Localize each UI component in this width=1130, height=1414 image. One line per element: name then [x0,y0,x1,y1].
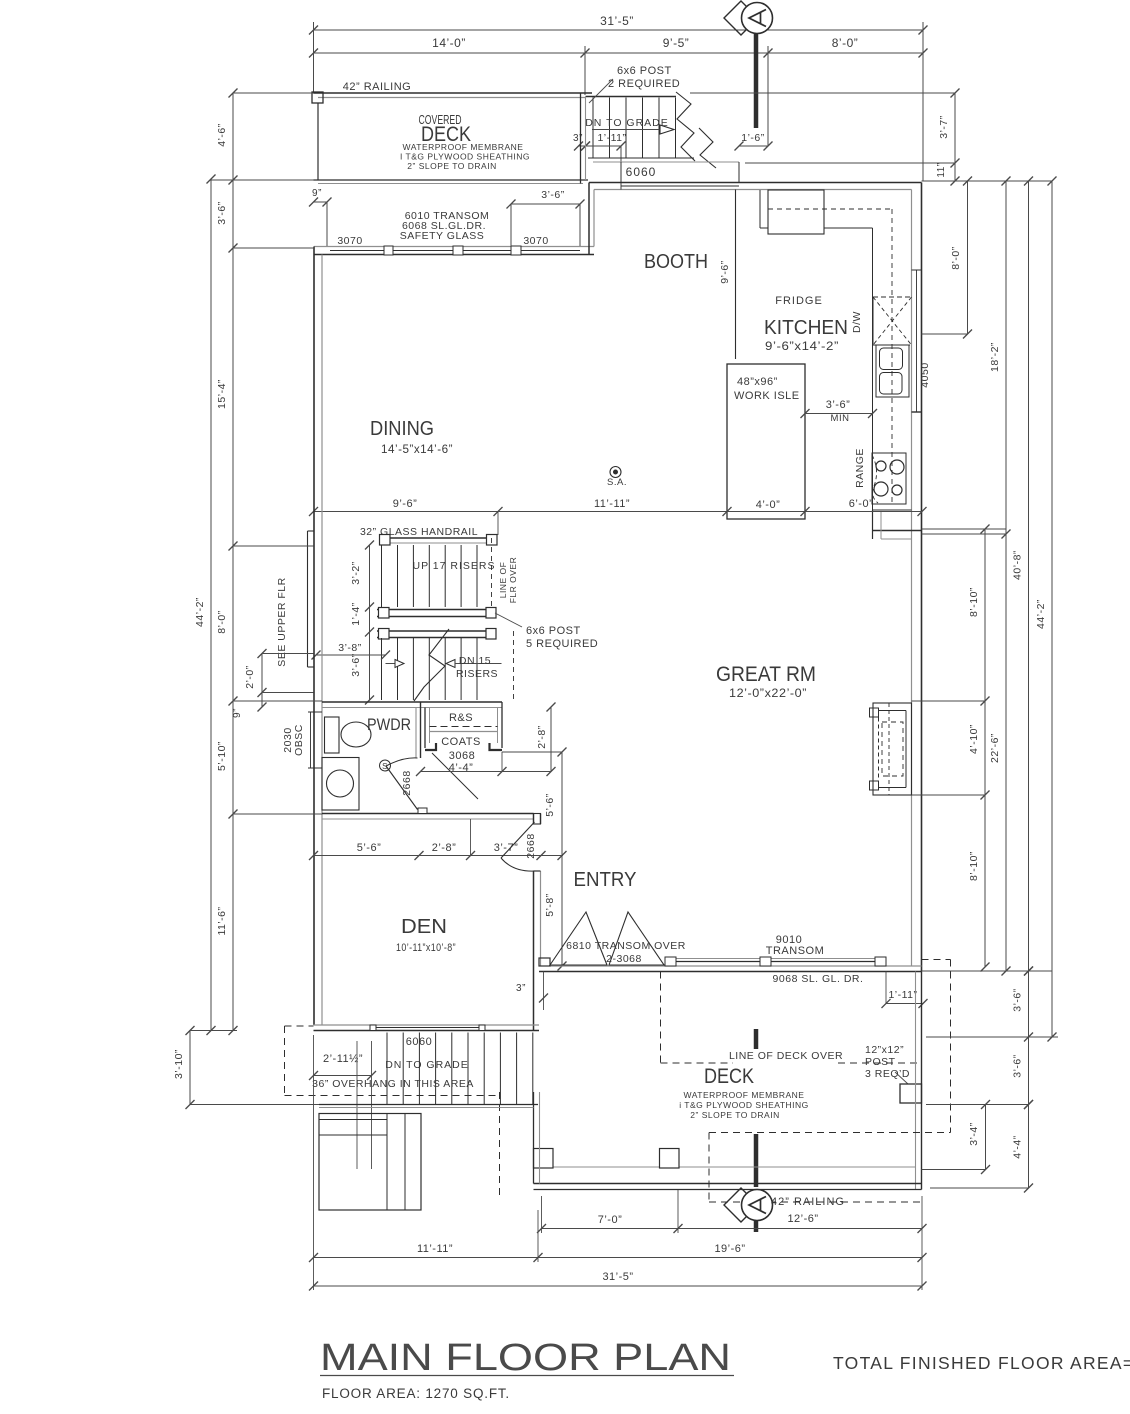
right chain 8'-0 [967,181,969,334]
svg-text:MIN: MIN [831,413,850,424]
wall deck right edge [580,93,582,184]
svg-text:11’-11”: 11’-11” [594,498,630,510]
covered deck bottom lines [314,179,589,181]
svg-text:31’-5”: 31’-5” [600,14,634,28]
svg-text:3’-6”: 3’-6” [1012,1054,1024,1078]
svg-text:4’-0”: 4’-0” [756,499,781,511]
svg-text:5’-10”: 5’-10” [216,741,228,771]
exterior stair treads top [586,96,677,98]
svg-text:R&S: R&S [449,712,473,724]
svg-text:1’-6”: 1’-6” [741,132,765,144]
svg-text:3”: 3” [516,983,526,994]
svg-text:14’-5”x14’-6”: 14’-5”x14’-6” [381,444,453,456]
svg-text:3068: 3068 [449,750,475,762]
svg-text:RANGE: RANGE [854,448,866,488]
svg-text:DEN: DEN [401,916,447,938]
stair left dim chain [369,545,371,700]
kitchen counter fridge enclosure [759,190,761,228]
line of floor over dashed [491,538,493,609]
svg-text:WATERPROOF MEMBRANE: WATERPROOF MEMBRANE [684,1090,805,1100]
wall den-entry divider [533,814,535,825]
stair landing [319,1114,421,1211]
dimension row 5'-6/2'-8/3'-7 [314,855,542,857]
stair middle rail 2 [377,630,492,632]
left dim chain inner [232,93,234,1031]
svg-text:6060: 6060 [626,165,657,179]
svg-text:36” OVERHANG IN THIS AREA: 36” OVERHANG IN THIS AREA [312,1078,474,1090]
right chain 4'-4 [1028,1105,1030,1189]
closet door slash [432,753,478,799]
arrow dn to grade top [592,129,660,131]
wall right exterior [911,190,913,967]
left dim chain 2'-0 and 9in [261,654,263,708]
pwdr toilet [322,758,359,811]
svg-text:9’-6”x14’-2”: 9’-6”x14’-2” [765,341,839,353]
svg-text:42” RAILING: 42” RAILING [343,81,411,93]
deck dashed left [499,1092,501,1196]
svg-text:OBSC: OBSC [293,724,305,756]
svg-text:3’-6”: 3’-6” [1012,988,1024,1012]
range [872,453,906,504]
svg-text:FLR OVER: FLR OVER [508,557,518,604]
section line bottom segments [754,1029,759,1049]
svg-text:3’-6”: 3’-6” [216,201,228,225]
see upper flr bump [307,531,309,667]
closet stubs [425,743,436,750]
svg-text:ENTRY: ENTRY [574,869,637,891]
svg-text:4’-4”: 4’-4” [449,762,474,774]
den door 2668 [501,822,535,858]
kitchen counter edge right [872,228,874,510]
smoke alarm [610,467,621,478]
svg-text:9068 SL. GL. DR.: 9068 SL. GL. DR. [773,973,864,985]
svg-text:2’-8”: 2’-8” [536,725,548,749]
dimension row 7'-0 / 12'-6 [542,1228,923,1230]
svg-text:14’-0”: 14’-0” [432,36,466,50]
svg-text:DN 15: DN 15 [459,655,491,667]
svg-text:3’-6”: 3’-6” [350,653,362,677]
work isle [727,364,805,519]
left dim chain 3'-10 [189,1031,191,1105]
dimension row 11'-11 / 19'-6 [314,1257,923,1259]
svg-text:12’-0”x22’-0”: 12’-0”x22’-0” [729,688,807,700]
svg-text:5’-8”: 5’-8” [544,893,556,917]
svg-text:KITCHEN: KITCHEN [764,317,848,339]
svg-text:9’-5”: 9’-5” [663,36,690,50]
svg-text:DECK: DECK [704,1065,754,1088]
svg-text:2” SLOPE TO DRAIN: 2” SLOPE TO DRAIN [690,1110,779,1120]
stair break zigzag middle [414,629,449,701]
svg-text:3’-4”: 3’-4” [968,1122,980,1146]
svg-text:5’-6”: 5’-6” [357,842,382,854]
deck posts [534,1149,554,1169]
svg-text:1’-11”: 1’-11” [597,132,626,144]
stair lower flight treads [397,638,399,700]
dimension row 9'-6"/11'-11"/4'-0"/6'-0" [314,511,923,513]
svg-text:6x6 POST: 6x6 POST [526,625,581,637]
svg-text:WATERPROOF MEMBRANE: WATERPROOF MEMBRANE [403,142,524,152]
svg-text:11”: 11” [936,162,947,177]
svg-text:6x6 POST: 6x6 POST [617,65,672,77]
fireplace [873,703,912,795]
right chain 3'-4 [985,1105,987,1170]
pwdr vanity [325,717,340,753]
svg-text:LINE OF: LINE OF [498,562,508,599]
stair break zigzag top [676,92,695,161]
svg-text:FLOOR AREA: 1270 SQ.FT.: FLOOR AREA: 1270 SQ.FT. [322,1386,510,1401]
svg-text:SAFETY GLASS: SAFETY GLASS [400,230,485,242]
svg-text:3’-6”: 3’-6” [541,189,565,201]
svg-text:2’-8”: 2’-8” [432,842,457,854]
roof overhang dashed right [922,959,951,961]
left dim chain outer 44'-2 [210,179,212,1031]
svg-text:22’-6”: 22’-6” [989,733,1001,763]
stair bottom rail [319,1104,538,1106]
svg-text:6810 TRANSOM OVER: 6810 TRANSOM OVER [566,940,686,952]
deck bottom rim [534,1183,922,1185]
entry window 9068 [665,961,886,963]
svg-text:4’-10”: 4’-10” [968,724,980,754]
svg-text:19’-6”: 19’-6” [714,1243,745,1255]
post line dashed [513,631,515,700]
switch symbol [380,760,391,771]
svg-text:TOTAL FINISHED FLOOR AREA=: TOTAL FINISHED FLOOR AREA= [833,1353,1130,1373]
right chain 8'-10 / 4'-10 / 8'-10 [984,529,986,967]
wall front entry [539,971,922,973]
overhang dashed [284,1026,286,1096]
right chain 18'-2 / 22'-6 [1005,181,1007,971]
stair middle rail 1 [377,609,492,611]
pwdr door 2668 [386,766,418,810]
svg-text:3’-10”: 3’-10” [173,1049,185,1079]
svg-text:3’-6”: 3’-6” [826,399,851,411]
svg-text:2-3068: 2-3068 [606,953,642,965]
wall booth divider [735,190,737,360]
svg-text:44’-2”: 44’-2” [194,597,206,627]
text 6x6 post 2 required top [589,79,613,103]
wall closet left [424,708,426,749]
deck left edge [533,1092,535,1184]
svg-text:2” SLOPE TO DRAIN: 2” SLOPE TO DRAIN [407,161,496,171]
svg-text:WORK ISLE: WORK ISLE [734,390,800,402]
basement stair treads [386,1033,388,1105]
svg-text:1’-11”: 1’-11” [888,989,917,1001]
svg-text:3’-8”: 3’-8” [338,642,362,654]
text 6x6 post 5 required [495,613,522,627]
section marker A bottom [724,1188,758,1222]
dimension 2-11half [314,1075,372,1077]
wall closet right [497,708,499,744]
svg-text:I T&G PLYWOOD SHEATHING: I T&G PLYWOOD SHEATHING [400,152,530,162]
covered deck railing [314,92,593,94]
svg-text:UP 17 RISERS: UP 17 RISERS [412,560,495,572]
svg-text:11’-11”: 11’-11” [417,1243,453,1255]
svg-text:i T&G PLYWOOD SHEATHING: i T&G PLYWOOD SHEATHING [679,1100,809,1110]
kitchen sink [876,345,909,397]
svg-text:GREAT RM: GREAT RM [716,663,816,686]
svg-text:D/W: D/W [851,311,863,333]
svg-text:2 REQUIRED: 2 REQUIRED [608,78,680,90]
svg-text:11’-6”: 11’-6” [216,906,228,935]
dimension 31'-5" top overall [314,29,924,31]
svg-text:5’-6”: 5’-6” [544,793,556,817]
wall den bottom [314,1024,540,1026]
wall left exterior [313,247,315,1026]
svg-text:12’-6”: 12’-6” [787,1213,818,1225]
wall pwdr right [415,708,417,759]
svg-text:3’-2”: 3’-2” [350,561,362,585]
wall front upper-left with windows [314,246,594,248]
svg-text:5 REQUIRED: 5 REQUIRED [526,638,598,650]
svg-text:1’-4”: 1’-4” [350,602,362,626]
svg-text:7’-0”: 7’-0” [598,1214,623,1226]
window 2030 obsc [310,712,312,768]
svg-text:LINE OF DECK OVER: LINE OF DECK OVER [729,1050,843,1062]
svg-text:DN TO GRADE: DN TO GRADE [385,1059,469,1071]
svg-text:PWDR: PWDR [367,715,411,734]
svg-text:3070: 3070 [523,235,548,247]
svg-text:S: S [382,762,388,771]
svg-text:10’-11”x10’-8”: 10’-11”x10’-8” [396,942,456,954]
dimension 2'-8" closet [550,707,552,772]
svg-text:3070: 3070 [337,235,362,247]
dishwasher [872,297,874,345]
wall booth-kitchen top [589,182,922,184]
wall pwdr top [322,701,502,703]
svg-text:4’-4”: 4’-4” [1012,1135,1024,1159]
svg-text:9’-6”: 9’-6” [393,498,418,510]
svg-text:BOOTH: BOOTH [644,251,708,273]
extension lines top [313,22,315,93]
stair upper flight treads [397,545,399,607]
kitchen upper cabinets dashed [768,208,892,210]
svg-text:DINING: DINING [370,418,434,440]
right chain 44'-2 [1051,181,1053,1037]
svg-text:2668: 2668 [401,770,413,795]
covered deck left edge [317,103,319,180]
svg-text:6’-0”: 6’-0” [849,498,874,510]
section marker A top [724,1,758,35]
svg-text:12”x12”: 12”x12” [865,1044,904,1056]
svg-text:42” RAILING: 42” RAILING [771,1196,845,1208]
right chain 3'-7 and 11 [954,93,956,181]
svg-text:S.A.: S.A. [607,477,627,488]
svg-text:18’-2”: 18’-2” [989,342,1001,372]
svg-text:31’-5”: 31’-5” [602,1271,633,1283]
svg-text:48”x96”: 48”x96” [737,376,778,388]
right chain 3'-6 3'-6 [1028,971,1030,1105]
svg-text:2668: 2668 [525,833,537,858]
svg-text:3’-7”: 3’-7” [938,115,950,139]
svg-text:8’-0”: 8’-0” [832,36,859,50]
svg-text:DN TO GRADE: DN TO GRADE [585,117,669,129]
deck right edge [915,972,917,1190]
svg-text:9’-6”: 9’-6” [719,260,731,284]
svg-text:9”: 9” [232,708,243,718]
stair direction arrows [386,663,396,665]
svg-text:3 REQ’D: 3 REQ’D [865,1068,910,1080]
svg-text:32” GLASS HANDRAIL: 32” GLASS HANDRAIL [360,526,478,538]
kitchen bottom counter return [873,530,922,532]
svg-text:15’-4”: 15’-4” [216,379,228,409]
right chain 40'-8 [1028,181,1030,971]
stair handrail top [381,537,497,539]
wall pwdr bottom [322,813,534,815]
wall vertical jog x589 [588,183,590,255]
svg-text:8’-10”: 8’-10” [968,851,980,881]
svg-text:4’-6”: 4’-6” [216,123,228,147]
dimension row 14'-0" / 9'-5" / 8'-0" [314,52,924,54]
svg-text:TRANSOM: TRANSOM [766,945,825,957]
window 4050 right wall [916,270,918,412]
dimension 5'-6 and 5'-8 vertical chain [561,752,563,966]
svg-text:8’-10”: 8’-10” [968,587,980,617]
svg-text:8’-0”: 8’-0” [216,610,228,634]
deck inner line [540,1166,916,1168]
left dim connectors [233,92,314,94]
post 12x12 [900,1084,922,1103]
deck over dashed upper [660,972,662,1064]
svg-text:COATS: COATS [441,736,481,748]
right connector long [922,180,1053,182]
dimension 31'-5 bottom [314,1285,923,1287]
wall 6060 window lines [588,157,694,159]
svg-text:44’-2”: 44’-2” [1035,599,1047,629]
svg-text:4050: 4050 [919,362,931,387]
entry double doors [550,912,607,965]
svg-text:9”: 9” [312,188,322,199]
svg-text:MAIN FLOOR PLAN: MAIN FLOOR PLAN [320,1337,731,1379]
svg-text:FRIDGE: FRIDGE [775,295,823,307]
svg-text:40’-8”: 40’-8” [1012,550,1024,580]
svg-text:RISERS: RISERS [456,668,498,680]
svg-text:8’-0”: 8’-0” [950,246,962,270]
svg-text:2’-0”: 2’-0” [244,665,256,689]
svg-text:POST: POST [865,1056,896,1068]
